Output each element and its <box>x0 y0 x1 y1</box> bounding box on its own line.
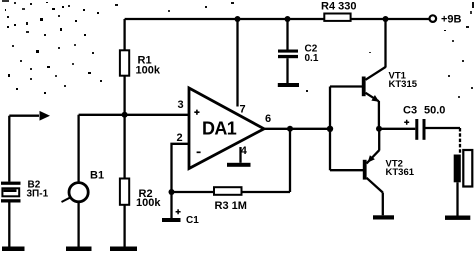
wire VT1 base <box>330 85 362 87</box>
pin 2 label <box>177 132 183 144</box>
wire top supply rail right segment <box>351 18 430 20</box>
microphone B1 <box>62 115 105 202</box>
ground under R2 <box>110 247 137 252</box>
wire C3 to phone <box>426 128 461 155</box>
wire op-amp output <box>264 128 330 130</box>
node output/feedback junction <box>287 126 293 132</box>
ground pin4 <box>227 163 251 167</box>
wire pin2 input <box>172 144 190 192</box>
resistor R4 <box>321 1 356 21</box>
wire R1 to R2 <box>123 76 125 179</box>
wire VT2 base <box>330 169 363 171</box>
wire VT1 emitter down <box>378 101 380 129</box>
wire B2 to ground <box>8 203 10 247</box>
node C2 rail junction <box>285 16 291 22</box>
resistor R2 <box>120 179 161 210</box>
wire pin3 input <box>79 114 189 116</box>
svg-text:R4 330: R4 330 <box>321 1 356 13</box>
piezo sounder B2 <box>1 180 49 203</box>
node +9V terminal <box>430 14 462 26</box>
pin 3 label <box>178 99 184 111</box>
capacitor C1 <box>162 192 199 226</box>
wire feedback vertical <box>289 129 291 192</box>
svg-text:100k: 100k <box>136 65 161 77</box>
node output/base tie junction <box>327 126 333 132</box>
pin 6 label <box>265 113 271 125</box>
wire VT2 collector down <box>382 193 384 216</box>
wire pin7 supply <box>235 16 241 107</box>
ground under VT2 <box>373 215 394 219</box>
wire phone to ground <box>456 182 458 215</box>
svg-text:DA1: DA1 <box>202 119 237 139</box>
capacitor C3 <box>403 105 445 140</box>
svg-text:3: 3 <box>178 99 184 111</box>
wire VT2 emitter up <box>378 129 380 151</box>
pin 4 label <box>241 145 248 157</box>
svg-text:7: 7 <box>240 104 246 116</box>
svg-text:C1: C1 <box>186 215 199 226</box>
svg-text:0.1: 0.1 <box>305 53 319 64</box>
capacitor C2 <box>278 19 319 83</box>
op-amp DA1 <box>189 88 264 169</box>
transistor VT2 <box>363 150 415 192</box>
ground under B2 <box>2 247 25 252</box>
wire B2 top <box>8 116 10 182</box>
ground under C2 <box>278 83 299 87</box>
earphone BF1 <box>454 150 473 187</box>
svg-text:R3 1M: R3 1M <box>215 200 247 212</box>
wire pin4 <box>239 147 241 163</box>
svg-text:100k: 100k <box>136 197 161 209</box>
wire R1 top <box>123 19 125 50</box>
svg-text:KT315: KT315 <box>389 79 418 90</box>
resistor R1 <box>120 50 161 76</box>
wire R3 to pin2 node <box>172 191 215 193</box>
wire B2 arrow (acoustic coupling) <box>9 111 50 121</box>
transistor VT1 <box>362 67 418 102</box>
node emitters/output junction <box>376 126 382 132</box>
resistor R3 <box>214 187 247 212</box>
wire top supply rail left segment <box>125 18 325 20</box>
svg-text:2: 2 <box>177 132 183 144</box>
svg-text:50.0: 50.0 <box>424 105 445 117</box>
wire R2 to ground <box>123 205 125 247</box>
svg-text:4: 4 <box>241 145 248 157</box>
svg-text:+9B: +9B <box>441 14 462 26</box>
svg-text:KT361: KT361 <box>386 167 415 178</box>
svg-text:B1: B1 <box>90 170 104 182</box>
wire VT1 collector to rail <box>383 16 389 68</box>
svg-text:3Π-1: 3Π-1 <box>27 189 49 200</box>
svg-text:C3: C3 <box>403 105 417 117</box>
node pin2/R3/C1 junction <box>169 189 175 195</box>
wire base tie line <box>329 87 331 171</box>
wire emitters to C3 <box>379 128 415 130</box>
ground under phone <box>445 216 470 220</box>
wire feedback to R3 right <box>242 191 291 193</box>
pin 7 label <box>240 104 246 116</box>
svg-text:6: 6 <box>265 113 271 125</box>
node junction R1/R2/pin3 <box>122 112 128 118</box>
ground under B1 <box>66 247 92 252</box>
wire B1 to ground <box>77 202 79 247</box>
